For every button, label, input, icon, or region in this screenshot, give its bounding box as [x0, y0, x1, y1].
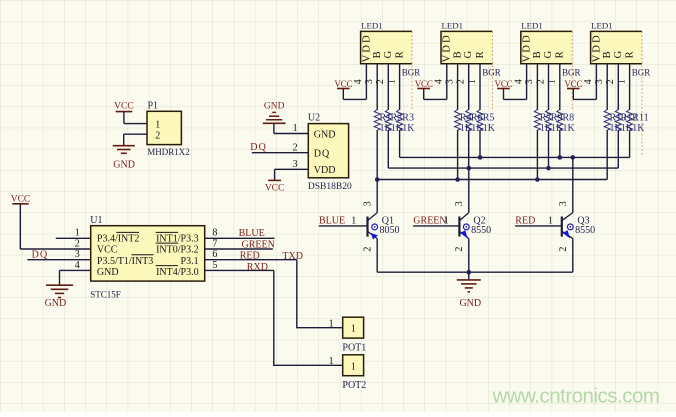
svg-text:G: G [383, 50, 394, 58]
svg-text:R3: R3 [402, 112, 414, 123]
svg-text:VCC: VCC [334, 79, 352, 89]
svg-text:VCC: VCC [564, 79, 582, 89]
svg-text:2: 2 [362, 247, 373, 252]
svg-text:VDD: VDD [314, 165, 336, 176]
svg-text:R: R [395, 51, 406, 58]
svg-text:8550: 8550 [471, 225, 491, 236]
svg-text:4: 4 [75, 260, 80, 271]
svg-text:VCC: VCC [415, 79, 433, 89]
svg-text:B: B [372, 51, 383, 58]
svg-text:GREEN: GREEN [413, 216, 446, 227]
svg-text:P3.5/T1/INT3: P3.5/T1/INT3 [97, 256, 153, 267]
svg-text:3: 3 [594, 79, 605, 84]
svg-text:RED: RED [515, 216, 535, 227]
svg-text:1: 1 [293, 123, 298, 134]
svg-text:1: 1 [351, 324, 356, 335]
svg-text:BGR: BGR [562, 67, 581, 77]
svg-text:1: 1 [548, 216, 553, 227]
svg-text:DSB18B20: DSB18B20 [308, 182, 352, 192]
svg-text:U2: U2 [308, 113, 320, 124]
svg-text:P3.1: P3.1 [181, 256, 199, 267]
svg-text:R: R [625, 51, 636, 58]
svg-text:VDD: VDD [361, 33, 372, 62]
svg-text:3: 3 [524, 79, 535, 84]
svg-text:R4: R4 [460, 112, 472, 123]
svg-text:8: 8 [212, 228, 217, 239]
svg-text:BGR: BGR [632, 67, 651, 77]
svg-text:POT1: POT1 [342, 343, 366, 354]
svg-text:GND: GND [459, 298, 481, 309]
svg-text:BGR: BGR [482, 67, 501, 77]
svg-text:8050: 8050 [380, 225, 400, 236]
svg-text:MHDR1X2: MHDR1X2 [147, 147, 190, 157]
svg-text:LED1: LED1 [442, 21, 464, 31]
svg-text:R5: R5 [483, 112, 495, 123]
svg-text:INT0/P3.2: INT0/P3.2 [156, 244, 199, 255]
svg-text:1K: 1K [483, 123, 496, 134]
svg-text:R: R [475, 51, 486, 58]
svg-text:G: G [463, 50, 474, 58]
svg-text:8550: 8550 [575, 225, 595, 236]
svg-text:2: 2 [558, 247, 569, 252]
svg-text:R1: R1 [380, 112, 392, 123]
svg-text:2: 2 [454, 247, 465, 252]
svg-text:GREEN: GREEN [242, 240, 275, 251]
svg-text:2: 2 [75, 238, 80, 249]
svg-text:1: 1 [75, 228, 80, 239]
svg-text:DQ: DQ [314, 149, 330, 160]
svg-text:1K: 1K [632, 123, 645, 134]
svg-text:www.cntronics.com: www.cntronics.com [492, 385, 660, 408]
svg-text:VCC: VCC [97, 244, 118, 255]
svg-text:4: 4 [513, 79, 524, 84]
svg-text:1K: 1K [402, 123, 415, 134]
svg-text:B: B [452, 51, 463, 58]
svg-text:1K: 1K [563, 123, 576, 134]
svg-text:3: 3 [362, 201, 373, 206]
svg-text:R6: R6 [471, 112, 483, 123]
svg-text:P3.4/INT2: P3.4/INT2 [97, 234, 139, 245]
svg-text:R8: R8 [563, 112, 575, 123]
svg-text:POT2: POT2 [342, 380, 366, 391]
svg-text:INT4/P3.0: INT4/P3.0 [156, 267, 199, 278]
svg-text:DQ: DQ [32, 249, 49, 260]
svg-text:2: 2 [293, 142, 298, 153]
svg-text:1: 1 [155, 120, 160, 131]
svg-text:3: 3 [293, 159, 298, 170]
svg-text:VDD: VDD [522, 33, 533, 62]
svg-text:R11: R11 [632, 112, 648, 123]
svg-text:4: 4 [583, 79, 594, 84]
svg-text:1: 1 [351, 361, 356, 372]
svg-text:BGR: BGR [402, 67, 421, 77]
svg-text:3: 3 [364, 79, 375, 84]
svg-text:LED1: LED1 [361, 21, 383, 31]
svg-text:6: 6 [212, 249, 217, 260]
svg-text:4: 4 [434, 79, 445, 84]
svg-text:3: 3 [558, 201, 569, 206]
svg-text:R2: R2 [391, 112, 403, 123]
svg-text:GND: GND [97, 267, 119, 278]
svg-text:RED: RED [240, 251, 260, 262]
svg-text:GND: GND [314, 130, 336, 141]
svg-text:STC15F: STC15F [90, 289, 121, 299]
svg-text:3: 3 [444, 79, 455, 84]
svg-text:1: 1 [329, 356, 334, 367]
svg-text:LED1: LED1 [591, 21, 613, 31]
svg-text:GND: GND [264, 101, 285, 111]
svg-text:R9: R9 [551, 112, 563, 123]
svg-text:VCC: VCC [265, 183, 285, 193]
svg-text:3: 3 [75, 249, 80, 260]
svg-text:4: 4 [353, 79, 364, 84]
svg-text:3: 3 [454, 201, 465, 206]
svg-text:1: 1 [351, 216, 356, 227]
svg-text:U1: U1 [90, 215, 102, 226]
svg-text:5: 5 [212, 260, 217, 271]
svg-text:VCC: VCC [114, 102, 134, 112]
svg-text:VDD: VDD [591, 33, 602, 62]
svg-text:LED1: LED1 [521, 21, 543, 31]
svg-text:VDD: VDD [442, 33, 453, 62]
svg-text:RXD: RXD [247, 262, 268, 273]
svg-text:B: B [532, 51, 543, 58]
svg-text:GND: GND [45, 298, 67, 309]
svg-text:P1: P1 [148, 101, 159, 112]
svg-text:G: G [543, 50, 554, 58]
svg-text:TXD: TXD [282, 251, 303, 262]
svg-text:BLUE: BLUE [319, 216, 345, 227]
svg-text:1: 1 [329, 318, 334, 329]
svg-text:DQ: DQ [250, 142, 267, 153]
svg-text:BLUE: BLUE [239, 228, 265, 239]
svg-text:VCC: VCC [495, 79, 513, 89]
svg-text:R7: R7 [540, 112, 552, 123]
svg-text:B: B [602, 51, 613, 58]
svg-text:7: 7 [212, 238, 217, 249]
svg-text:GND: GND [113, 159, 135, 170]
svg-text:R: R [555, 51, 566, 58]
svg-text:G: G [613, 50, 624, 58]
svg-text:2: 2 [155, 131, 160, 142]
svg-text:VCC: VCC [11, 194, 31, 204]
